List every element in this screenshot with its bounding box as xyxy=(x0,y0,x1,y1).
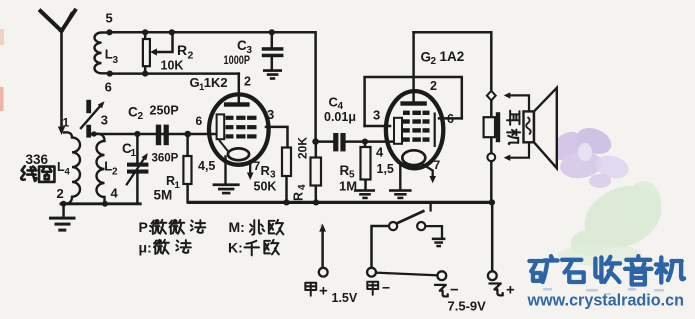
svg-text:50K: 50K xyxy=(254,180,277,194)
svg-text:336: 336 xyxy=(26,152,49,167)
svg-text:2: 2 xyxy=(57,186,64,201)
svg-text:1M: 1M xyxy=(339,179,357,194)
svg-text:M:: M: xyxy=(229,219,245,235)
svg-text:3: 3 xyxy=(373,108,380,123)
svg-text:3: 3 xyxy=(101,113,108,128)
svg-text:250P: 250P xyxy=(150,104,179,118)
svg-text:7.5-9V: 7.5-9V xyxy=(448,299,487,314)
svg-text:R: R xyxy=(340,163,350,178)
svg-text:1: 1 xyxy=(175,180,181,191)
svg-text:1A2: 1A2 xyxy=(440,49,465,64)
svg-text:1.5V: 1.5V xyxy=(332,291,358,305)
svg-text:+: + xyxy=(506,282,515,299)
svg-text:1,5: 1,5 xyxy=(377,162,394,176)
svg-text:2: 2 xyxy=(431,56,437,67)
svg-text:P:: P: xyxy=(139,219,153,235)
svg-text:R: R xyxy=(292,192,306,201)
svg-text:C: C xyxy=(128,105,138,120)
svg-text:C: C xyxy=(237,38,247,53)
svg-text:2: 2 xyxy=(188,50,194,62)
svg-text:−: − xyxy=(450,282,459,299)
svg-text:2: 2 xyxy=(112,167,118,178)
svg-text:4: 4 xyxy=(297,184,308,190)
svg-text:5M: 5M xyxy=(154,188,173,203)
svg-text:7: 7 xyxy=(254,159,261,173)
svg-text:R: R xyxy=(177,42,187,58)
svg-text:4: 4 xyxy=(65,167,71,178)
svg-text:μ:: μ: xyxy=(139,240,152,256)
svg-text:5: 5 xyxy=(106,11,113,26)
svg-text:4,5: 4,5 xyxy=(198,159,215,173)
svg-text:4: 4 xyxy=(376,145,384,160)
svg-text:3: 3 xyxy=(267,107,274,122)
svg-text:10K: 10K xyxy=(161,59,184,73)
svg-text:1: 1 xyxy=(131,148,137,159)
svg-text:360P: 360P xyxy=(152,153,179,165)
svg-text:20K: 20K xyxy=(296,137,310,159)
svg-text:www.crystalradio.cn: www.crystalradio.cn xyxy=(527,292,684,310)
svg-text:1000P: 1000P xyxy=(224,55,251,67)
svg-text:G: G xyxy=(421,50,432,65)
svg-text:1: 1 xyxy=(63,116,70,130)
svg-text:3: 3 xyxy=(113,55,119,66)
svg-text:0.01μ: 0.01μ xyxy=(324,110,356,124)
svg-text:7: 7 xyxy=(434,158,441,172)
svg-text:4: 4 xyxy=(111,186,119,201)
svg-text:R: R xyxy=(261,163,271,178)
svg-text:6: 6 xyxy=(196,114,203,128)
svg-text:6: 6 xyxy=(105,80,112,95)
svg-text:−: − xyxy=(382,280,390,296)
svg-text:1K2: 1K2 xyxy=(204,75,228,90)
svg-text:2: 2 xyxy=(244,75,251,89)
svg-text:K:: K: xyxy=(228,240,243,256)
svg-text:2: 2 xyxy=(138,111,144,122)
svg-text:6: 6 xyxy=(447,112,454,126)
svg-text:+: + xyxy=(319,283,328,300)
svg-text:2: 2 xyxy=(430,79,437,93)
